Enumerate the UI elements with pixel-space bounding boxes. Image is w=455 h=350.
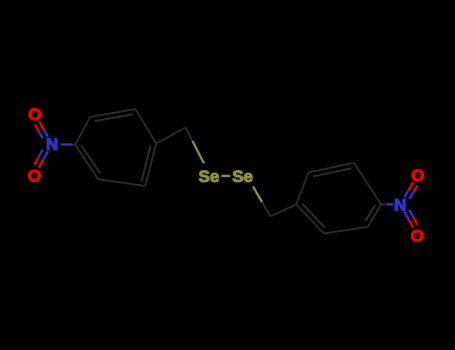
bond Se2-CH2 xyxy=(253,187,262,203)
bond right-ring C6'-C1' xyxy=(354,163,381,205)
bond C1'-N2 xyxy=(381,203,387,205)
bond right-ring C2'-C3' xyxy=(324,227,368,234)
svg-text:N: N xyxy=(394,195,406,214)
bond left-ring C3-C4 xyxy=(135,109,156,143)
double bond N2=O4 (bottom-right nitro) xyxy=(404,212,409,220)
bond left-ring C4-C5 xyxy=(145,143,156,186)
bond Se1-Se2 (diselenide) xyxy=(221,175,230,177)
bond right-ring C4'-C5' xyxy=(296,172,308,204)
bond C4-CH2 (left benzylic) xyxy=(156,128,186,144)
bond right-ring inner C3'=C4' xyxy=(302,204,325,228)
bond CH2-Se1 xyxy=(186,128,193,142)
bond left-ring C1-C2 xyxy=(75,117,90,145)
bond CH2-C4' (right benzylic) xyxy=(270,204,296,216)
svg-text:O: O xyxy=(411,227,424,246)
bond right-ring C3'-C4' xyxy=(296,204,324,233)
bond left-ring C6-C1 xyxy=(75,145,98,180)
svg-text:O: O xyxy=(28,167,41,186)
bond right-ring inner C5'=C6' xyxy=(313,168,352,176)
bond right-ring C1'-C2' xyxy=(368,204,381,226)
svg-text:O: O xyxy=(411,166,424,185)
bond right-ring inner C1'=C2' xyxy=(365,205,375,221)
bond left-ring inner C4=C5 xyxy=(142,146,151,182)
double bond N2=O3 (top-right nitro) xyxy=(404,190,408,197)
svg-text:O: O xyxy=(28,105,41,124)
bond N1-C1 xyxy=(61,143,73,145)
svg-text:N: N xyxy=(46,135,58,154)
bond left-ring C5-C6 xyxy=(98,179,145,186)
double bond N1=O2 (bottom-left nitro) xyxy=(43,151,48,159)
svg-text:Se: Se xyxy=(232,167,253,186)
svg-text:Se: Se xyxy=(199,167,220,186)
double bond N1=O1 (top-left nitro) xyxy=(44,129,48,137)
bond left-ring inner C2=C3 xyxy=(95,114,133,121)
bond left-ring C2-C3 xyxy=(90,109,135,117)
bond left-ring inner C6=C1 xyxy=(81,145,100,174)
bond right-ring C5'-C6' xyxy=(309,163,354,173)
